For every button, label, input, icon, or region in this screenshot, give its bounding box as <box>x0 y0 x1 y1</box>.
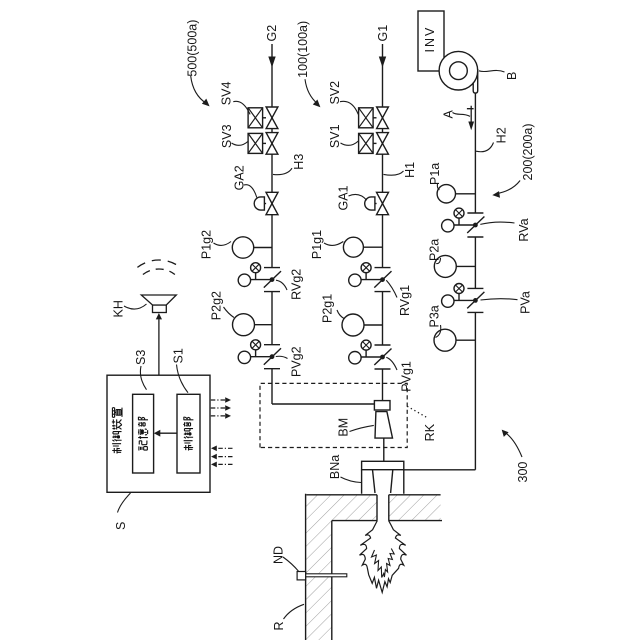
svg-text:RVg2: RVg2 <box>290 269 304 300</box>
svg-text:GA2: GA2 <box>233 165 247 190</box>
svg-text:G1: G1 <box>376 25 390 42</box>
svg-text:RK: RK <box>423 423 437 441</box>
svg-text:S1: S1 <box>172 348 186 363</box>
svg-text:PVg1: PVg1 <box>400 361 414 392</box>
svg-text:RVa: RVa <box>517 218 531 241</box>
svg-text:KH: KH <box>112 300 126 317</box>
svg-text:S3: S3 <box>134 350 148 365</box>
svg-text:100(100a): 100(100a) <box>296 21 310 78</box>
svg-text:R: R <box>272 621 286 630</box>
svg-text:300: 300 <box>516 462 530 483</box>
svg-text:PVg2: PVg2 <box>290 346 304 377</box>
svg-text:P1g2: P1g2 <box>200 230 214 259</box>
svg-text:P2g2: P2g2 <box>210 291 224 320</box>
svg-text:S: S <box>114 522 128 530</box>
svg-text:INV: INV <box>423 26 437 53</box>
svg-text:SV1: SV1 <box>328 124 342 148</box>
svg-text:H1: H1 <box>403 162 417 178</box>
svg-text:ND: ND <box>272 546 286 564</box>
svg-text:A: A <box>442 110 456 119</box>
svg-text:P3a: P3a <box>428 305 442 327</box>
svg-text:500(500a): 500(500a) <box>186 20 200 77</box>
svg-text:PVa: PVa <box>519 291 533 314</box>
svg-text:P1a: P1a <box>428 163 442 185</box>
svg-text:G2: G2 <box>265 25 279 42</box>
svg-text:P2g1: P2g1 <box>321 294 335 323</box>
svg-text:H3: H3 <box>292 154 306 170</box>
svg-text:BNa: BNa <box>328 455 342 479</box>
svg-text:SV2: SV2 <box>328 81 342 105</box>
svg-text:P2a: P2a <box>428 239 442 261</box>
svg-text:H2: H2 <box>495 127 509 143</box>
svg-text:200(200a): 200(200a) <box>521 124 535 181</box>
svg-text:BM: BM <box>337 418 351 437</box>
svg-text:RVg1: RVg1 <box>398 285 412 316</box>
svg-text:SV3: SV3 <box>220 124 234 148</box>
svg-text:GA1: GA1 <box>337 185 351 210</box>
svg-text:SV4: SV4 <box>220 82 234 106</box>
svg-text:P1g1: P1g1 <box>310 230 324 259</box>
svg-text:B: B <box>505 72 519 80</box>
